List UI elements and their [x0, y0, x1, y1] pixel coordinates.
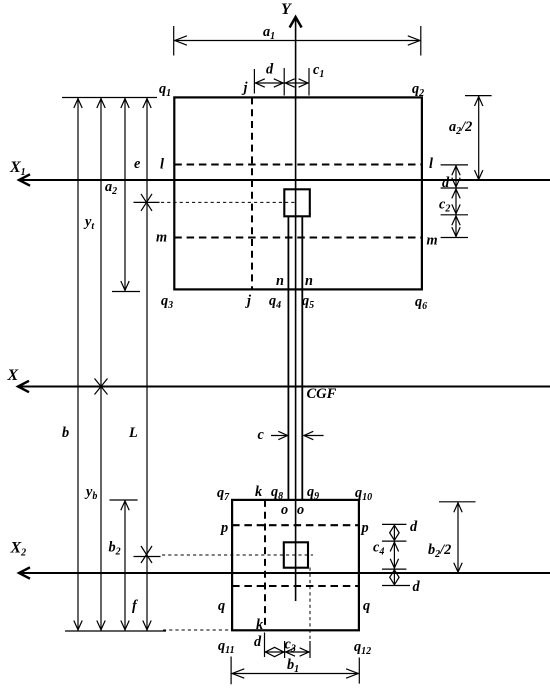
- svg-text:l: l: [160, 157, 164, 173]
- dimension a2 line: [124, 98, 126, 291]
- dimension d bottom-right lower arrows: [393, 569, 395, 585]
- svg-text:c4: c4: [373, 540, 384, 558]
- svg-text:q3: q3: [161, 293, 173, 311]
- svg-text:b1: b1: [287, 657, 299, 675]
- svg-text:d: d: [442, 175, 450, 191]
- bottom right tick bar at box bottom: [382, 568, 406, 570]
- dimension yt yb line: [100, 98, 102, 631]
- svg-text:q: q: [363, 598, 370, 614]
- bottom tick at k extension: [264, 633, 266, 658]
- dashed line l: [174, 163, 422, 165]
- bottom right tick bar at q: [382, 585, 410, 587]
- svg-text:c: c: [258, 427, 265, 443]
- X2 axis: [18, 572, 550, 574]
- bottom tick at box right extension: [309, 641, 311, 658]
- X2 axis arrowhead: [19, 567, 30, 578]
- X axis arrowhead: [18, 381, 29, 392]
- svg-text:q12: q12: [354, 639, 371, 657]
- dimension b1 line: [231, 673, 359, 675]
- top flange rectangle q1-q2-q6-q3: [174, 97, 422, 289]
- svg-text:n: n: [305, 273, 313, 289]
- dotted extension line c3: [309, 568, 311, 640]
- svg-text:X2: X2: [10, 540, 27, 559]
- svg-text:o: o: [281, 502, 288, 518]
- svg-text:q11: q11: [218, 638, 235, 656]
- dimension a2/2 line: [478, 96, 480, 181]
- b1 left tick: [230, 657, 232, 685]
- dotted extension line bottom edge: [163, 629, 232, 631]
- dimension c4 arrows: [393, 541, 395, 569]
- svg-text:m: m: [427, 233, 438, 249]
- dashed line q: [232, 585, 359, 587]
- dimension a1 line: [174, 40, 421, 42]
- Y axis arrowhead: [290, 17, 302, 28]
- e L junction cross: [134, 201, 160, 203]
- top small box: [284, 189, 310, 216]
- bottom small box: [284, 542, 308, 567]
- svg-text:p: p: [360, 520, 369, 536]
- dotted centroid line top: [161, 201, 296, 203]
- svg-text:L: L: [128, 425, 138, 441]
- svg-text:k: k: [256, 617, 264, 633]
- dimension c left arrow: [271, 435, 288, 437]
- svg-text:q9: q9: [307, 484, 319, 502]
- dashed line p: [232, 524, 359, 526]
- svg-text:q1: q1: [159, 81, 171, 99]
- dimension b2/2 line: [457, 502, 459, 573]
- left stack bottom tick bar: [65, 630, 166, 632]
- dashed line k: [264, 500, 266, 630]
- svg-text:q10: q10: [355, 485, 372, 503]
- svg-text:q: q: [218, 598, 225, 614]
- c1 tick at box right: [308, 68, 310, 96]
- right stack tick bar at box bottom: [441, 214, 468, 216]
- svg-text:q6: q6: [415, 294, 427, 312]
- svg-text:a2/2: a2/2: [449, 119, 472, 137]
- bottom right tick bar at p: [382, 523, 406, 525]
- svg-text:f: f: [132, 598, 138, 614]
- svg-text:CGF: CGF: [307, 386, 337, 402]
- svg-text:o: o: [297, 502, 304, 518]
- bottom flange rectangle q7-q10-q12-q11: [232, 500, 359, 630]
- right stack tick bar at box top: [441, 187, 468, 189]
- dimension d top arrows: [254, 82, 284, 84]
- dimension c3 arrows: [285, 651, 310, 653]
- svg-text:d: d: [413, 579, 421, 595]
- svg-text:q8: q8: [271, 484, 283, 502]
- dimension d right arrows: [455, 165, 457, 188]
- a2/2 top tick bar: [465, 95, 492, 97]
- svg-text:yt: yt: [83, 214, 95, 232]
- web left edge: [287, 216, 289, 500]
- yt yb junction cross: [95, 379, 108, 395]
- dotted centroid line bottom: [162, 554, 313, 556]
- L f junction cross: [134, 556, 161, 558]
- right stack tick bar at l: [441, 164, 468, 166]
- dimension b line: [77, 98, 79, 631]
- svg-text:q4: q4: [269, 293, 281, 311]
- dashed line j: [251, 97, 253, 289]
- svg-text:j: j: [245, 293, 252, 309]
- bottom right tick bar at box top: [382, 540, 406, 542]
- svg-text:b2/2: b2/2: [428, 542, 451, 560]
- dimension c right arrow: [304, 435, 324, 437]
- svg-text:k: k: [255, 484, 263, 500]
- X1 axis arrowhead: [19, 174, 30, 185]
- a1 left tick: [173, 26, 175, 56]
- svg-text:c2: c2: [439, 197, 450, 215]
- dimension d bottom-right upper arrows: [393, 524, 395, 541]
- svg-text:a2: a2: [105, 179, 117, 197]
- svg-text:d: d: [410, 519, 418, 535]
- dimension box bottom to m arrows: [455, 215, 457, 238]
- svg-text:p: p: [219, 520, 228, 536]
- dimension e L f line: [146, 98, 148, 631]
- svg-text:c1: c1: [313, 62, 324, 80]
- dashed line m: [174, 236, 422, 238]
- b2 top tick bar: [110, 499, 138, 501]
- svg-text:q5: q5: [302, 293, 314, 311]
- svg-text:m: m: [156, 230, 167, 246]
- svg-text:d: d: [266, 62, 274, 78]
- X1 axis: [18, 179, 550, 181]
- d c1 tick at box left: [283, 68, 285, 96]
- svg-text:X1: X1: [9, 159, 26, 178]
- a1 right tick: [420, 26, 422, 56]
- svg-text:e: e: [134, 156, 141, 172]
- svg-text:n: n: [276, 273, 284, 289]
- right stack tick bar at m: [441, 237, 468, 239]
- dimension d bottom arrows: [265, 651, 285, 653]
- svg-text:q7: q7: [217, 485, 230, 503]
- dimension b2 line: [124, 500, 126, 631]
- dimension c1 arrows: [284, 82, 309, 84]
- svg-text:d: d: [254, 634, 262, 650]
- b1 right tick: [358, 658, 360, 684]
- svg-text:a1: a1: [263, 24, 275, 42]
- svg-text:Y: Y: [281, 1, 292, 18]
- Y axis: [295, 16, 297, 601]
- bottom tick at box left extension: [284, 641, 286, 658]
- svg-text:j: j: [242, 80, 249, 96]
- dimension c2 arrows: [455, 188, 457, 215]
- svg-text:q2: q2: [412, 81, 424, 99]
- svg-text:l: l: [429, 156, 433, 172]
- svg-text:b: b: [62, 425, 69, 441]
- X axis: [17, 386, 550, 388]
- svg-text:yb: yb: [84, 484, 97, 502]
- svg-text:b2: b2: [109, 540, 121, 558]
- svg-text:X: X: [7, 367, 19, 384]
- left stack top tick bar: [62, 97, 157, 99]
- svg-text:c3: c3: [285, 637, 296, 655]
- web right edge: [301, 216, 303, 500]
- b2/2 top tick bar: [439, 501, 476, 503]
- a2 bottom tick bar: [112, 291, 140, 293]
- d c1 tick at j: [253, 69, 255, 94]
